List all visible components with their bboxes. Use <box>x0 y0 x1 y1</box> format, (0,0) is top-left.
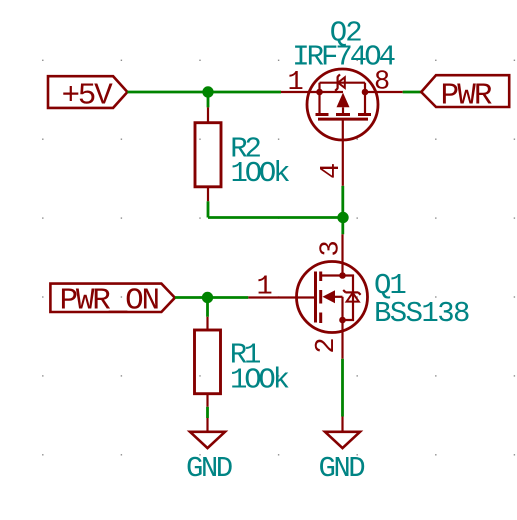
resistor R1 <box>195 317 221 407</box>
wire gate node vertical <box>341 186 344 235</box>
ground symbol (left) <box>190 418 225 448</box>
wire R2 bottom to gate node <box>208 201 343 217</box>
transistor Q1 BSS138 <box>248 234 367 358</box>
wire junction to R2 top <box>207 92 210 107</box>
global label +5V <box>48 76 127 113</box>
svg-text:GND: GND <box>186 452 232 485</box>
wire PWR_ON to Q1 gate <box>175 296 248 299</box>
wire Q1 source to GND <box>341 359 344 417</box>
svg-text:1: 1 <box>257 273 273 303</box>
junction PWR_ON / R1 <box>202 292 213 303</box>
global label PWR_ON <box>50 283 174 318</box>
svg-text:1OOk: 1OOk <box>230 363 289 396</box>
svg-text:IRF74O4: IRF74O4 <box>292 41 394 74</box>
wire +5V rail <box>127 91 281 94</box>
svg-text:PWR: PWR <box>441 78 492 113</box>
svg-text:4: 4 <box>317 163 347 179</box>
junction gate node <box>337 212 348 223</box>
wire R1 bottom to GND <box>206 407 209 418</box>
svg-text:BSS138: BSS138 <box>374 297 469 330</box>
transistor Q2 IRF7404 <box>281 69 403 186</box>
svg-text:GND: GND <box>319 452 365 485</box>
svg-text:+5V: +5V <box>62 78 114 113</box>
svg-text:2: 2 <box>312 337 342 353</box>
svg-text:PWR_ON: PWR_ON <box>60 283 159 318</box>
global label PWR <box>421 75 509 113</box>
junction at +5V / R2 <box>202 86 213 97</box>
resistor R2 <box>195 107 221 201</box>
ground symbol (right) <box>325 417 360 449</box>
wire junction to R1 top <box>206 298 209 317</box>
svg-text:1OOk: 1OOk <box>231 157 290 190</box>
wire Q2 pin8 to PWR <box>403 91 422 94</box>
svg-text:3: 3 <box>316 240 346 256</box>
